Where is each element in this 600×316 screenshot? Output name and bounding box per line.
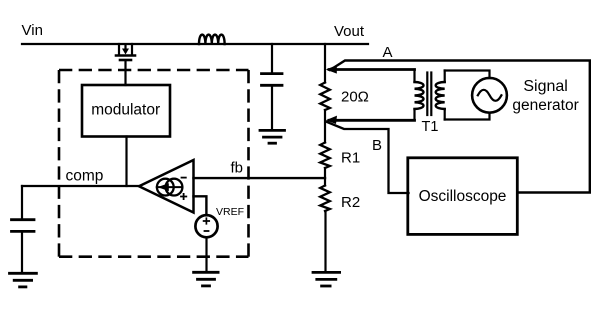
svg-text:Vin: Vin [22,22,43,39]
svg-text:A: A [383,44,393,61]
svg-text:Vout: Vout [334,23,365,40]
svg-text:T1: T1 [422,119,439,135]
svg-text:20Ω: 20Ω [341,89,369,106]
svg-text:R1: R1 [341,150,360,167]
svg-text:comp: comp [66,168,104,185]
svg-text:Signal: Signal [523,78,567,95]
svg-text:Oscilloscope: Oscilloscope [419,188,507,205]
svg-text:fb: fb [231,160,244,177]
svg-text:R2: R2 [341,194,360,211]
svg-text:generator: generator [512,97,578,114]
svg-text:modulator: modulator [91,102,160,119]
svg-text:B: B [372,137,382,154]
svg-text:VREF: VREF [216,206,244,218]
